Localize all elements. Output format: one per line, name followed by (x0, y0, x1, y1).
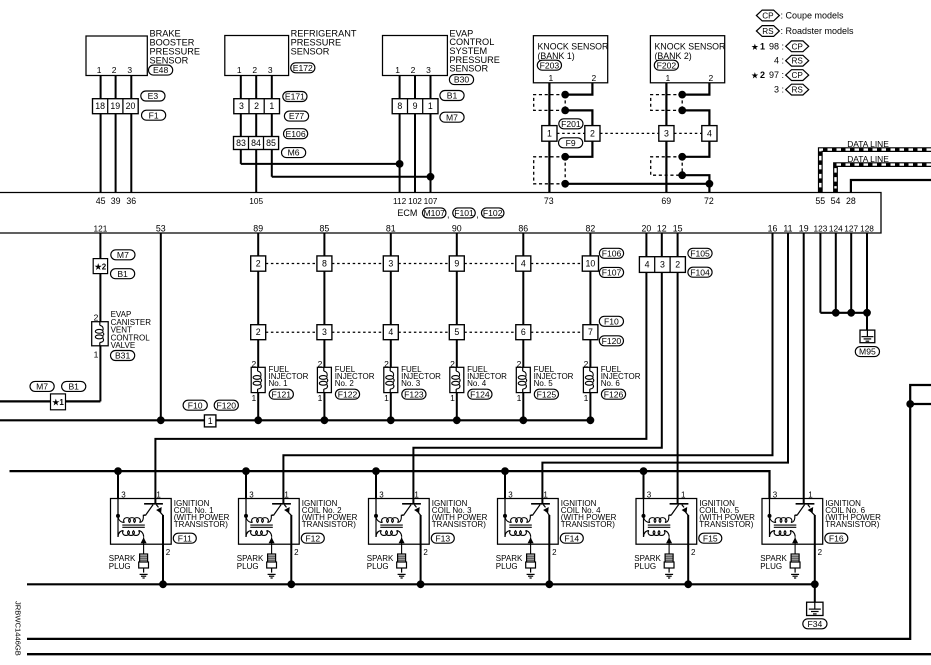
svg-text:10: 10 (586, 259, 596, 269)
svg-text:12: 12 (657, 223, 667, 233)
svg-text:SENSOR: SENSOR (150, 55, 189, 65)
svg-text:2: 2 (590, 128, 595, 138)
svg-text:PLUG: PLUG (367, 562, 389, 571)
svg-text:73: 73 (544, 196, 554, 206)
svg-text:1: 1 (547, 128, 552, 138)
svg-text:1: 1 (156, 490, 161, 499)
svg-text:B1: B1 (447, 91, 458, 101)
svg-text:2: 2 (256, 327, 261, 337)
svg-text:128: 128 (860, 223, 874, 233)
svg-text:84: 84 (251, 138, 261, 148)
svg-text:1: 1 (450, 393, 455, 403)
svg-text:No. 6: No. 6 (601, 379, 621, 388)
svg-text:E48: E48 (153, 65, 169, 75)
svg-text:No. 3: No. 3 (401, 379, 421, 388)
svg-text:2: 2 (818, 548, 823, 557)
svg-text:2: 2 (294, 548, 299, 557)
svg-text:PLUG: PLUG (760, 562, 782, 571)
svg-text:53: 53 (156, 223, 166, 233)
svg-text:2: 2 (252, 65, 257, 75)
svg-text:9: 9 (413, 101, 418, 111)
svg-text:89: 89 (253, 223, 263, 233)
svg-text:2: 2 (450, 359, 455, 369)
svg-text:54: 54 (831, 196, 841, 206)
svg-text:7: 7 (588, 327, 593, 337)
svg-text:1: 1 (584, 393, 589, 403)
svg-text:JRBWC1446GB: JRBWC1446GB (14, 601, 23, 656)
svg-text:ECM: ECM (397, 208, 417, 218)
svg-text:F202: F202 (657, 60, 677, 70)
svg-text:3: 3 (322, 327, 327, 337)
svg-text:3: 3 (388, 259, 393, 269)
svg-text:3 :: 3 : (774, 85, 784, 95)
svg-text:2: 2 (251, 359, 256, 369)
svg-text:1: 1 (237, 65, 242, 75)
svg-text:1: 1 (760, 41, 765, 51)
svg-text:B1: B1 (68, 382, 79, 392)
svg-text:124: 124 (829, 223, 843, 233)
svg-text:TRANSISTOR): TRANSISTOR) (561, 520, 615, 529)
svg-text:39: 39 (111, 196, 121, 206)
svg-text:1: 1 (543, 490, 548, 499)
svg-text:SENSOR: SENSOR (291, 46, 330, 56)
svg-text:8: 8 (322, 259, 327, 269)
svg-text:1: 1 (428, 101, 433, 111)
svg-text:2: 2 (411, 65, 416, 75)
svg-text:F16: F16 (829, 533, 844, 543)
svg-text:RS: RS (792, 57, 804, 66)
svg-text:72: 72 (704, 196, 714, 206)
svg-text:20: 20 (642, 223, 652, 233)
svg-text:F101: F101 (454, 208, 474, 218)
svg-text:8: 8 (397, 101, 402, 111)
svg-text:F13: F13 (435, 533, 450, 543)
svg-text:2: 2 (384, 359, 389, 369)
svg-text:CP: CP (792, 42, 804, 51)
svg-text:4: 4 (388, 327, 393, 337)
svg-text:97 :: 97 : (769, 70, 784, 80)
svg-text:3: 3 (508, 490, 513, 499)
svg-text:M7: M7 (36, 382, 48, 392)
svg-text:F102: F102 (483, 208, 503, 218)
svg-text:F9: F9 (566, 138, 576, 148)
svg-text:F203: F203 (540, 60, 560, 70)
svg-text:86: 86 (518, 223, 528, 233)
svg-text:,: , (476, 210, 479, 220)
svg-text:RS: RS (762, 27, 774, 36)
svg-text:1: 1 (395, 65, 400, 75)
svg-text:19: 19 (799, 223, 809, 233)
svg-text:69: 69 (661, 196, 671, 206)
svg-text:4 :: 4 : (774, 56, 784, 66)
svg-text:2: 2 (760, 70, 765, 80)
svg-text:85: 85 (320, 223, 330, 233)
svg-text:28: 28 (846, 196, 856, 206)
svg-text:2: 2 (709, 73, 714, 83)
svg-text:VALVE: VALVE (111, 341, 136, 350)
svg-text:105: 105 (249, 196, 263, 206)
svg-text:M7: M7 (117, 250, 129, 260)
svg-text:55: 55 (815, 196, 825, 206)
svg-text:SENSOR: SENSOR (449, 64, 488, 74)
svg-text:3: 3 (127, 65, 132, 75)
svg-text:1: 1 (666, 73, 671, 83)
svg-text:TRANSISTOR): TRANSISTOR) (699, 520, 753, 529)
svg-text:15: 15 (673, 223, 683, 233)
svg-text:PLUG: PLUG (496, 562, 518, 571)
svg-text:112: 112 (393, 196, 407, 206)
svg-text:1: 1 (94, 350, 99, 360)
svg-text:: Coupe models: : Coupe models (781, 11, 845, 21)
svg-text:45: 45 (96, 196, 106, 206)
svg-text:F126: F126 (604, 389, 624, 399)
svg-text:3: 3 (647, 490, 652, 499)
svg-text:4: 4 (645, 260, 650, 270)
svg-text:M7: M7 (446, 112, 458, 122)
svg-text:83: 83 (236, 138, 246, 148)
svg-text:B1: B1 (117, 269, 128, 279)
svg-text:1: 1 (517, 393, 522, 403)
svg-text:B31: B31 (115, 351, 131, 361)
svg-text:(BANK 2): (BANK 2) (655, 51, 692, 61)
svg-text:F106: F106 (602, 248, 622, 258)
svg-text:9: 9 (454, 259, 459, 269)
svg-text:RS: RS (792, 86, 804, 95)
svg-text:★2: ★2 (95, 262, 107, 271)
svg-text:No. 2: No. 2 (335, 379, 355, 388)
svg-text:3: 3 (249, 490, 254, 499)
svg-text:PLUG: PLUG (634, 562, 656, 571)
svg-text:16: 16 (768, 223, 778, 233)
svg-text:1: 1 (208, 416, 213, 426)
svg-text:1: 1 (549, 73, 554, 83)
svg-text:M6: M6 (288, 148, 300, 158)
svg-text:2: 2 (675, 260, 680, 270)
svg-text:B30: B30 (454, 75, 470, 85)
svg-text:F1: F1 (149, 110, 159, 120)
svg-text:PLUG: PLUG (109, 562, 131, 571)
svg-text:2: 2 (691, 548, 696, 557)
svg-text:F201: F201 (561, 119, 581, 129)
svg-text:F104: F104 (690, 267, 710, 277)
svg-text:3: 3 (239, 101, 244, 111)
svg-text:1: 1 (269, 101, 274, 111)
svg-text:TRANSISTOR): TRANSISTOR) (432, 520, 486, 529)
svg-text:TRANSISTOR): TRANSISTOR) (825, 520, 879, 529)
svg-text:4: 4 (521, 259, 526, 269)
svg-text:E3: E3 (148, 91, 159, 101)
svg-text:3: 3 (426, 65, 431, 75)
svg-text:3: 3 (660, 260, 665, 270)
svg-text:2: 2 (166, 548, 171, 557)
svg-text:F124: F124 (470, 389, 490, 399)
svg-text:19: 19 (110, 101, 120, 111)
svg-text:TRANSISTOR): TRANSISTOR) (174, 520, 228, 529)
svg-text:2: 2 (94, 312, 99, 322)
svg-text:2: 2 (423, 548, 428, 557)
svg-text:★1: ★1 (52, 398, 64, 407)
svg-text:36: 36 (126, 196, 136, 206)
svg-text:11: 11 (783, 223, 792, 233)
svg-text:F10: F10 (188, 400, 203, 410)
svg-text:: Roadster models: : Roadster models (781, 26, 855, 36)
svg-text:PLUG: PLUG (237, 562, 259, 571)
svg-text:(BANK 1): (BANK 1) (538, 51, 575, 61)
svg-text:F105: F105 (690, 248, 710, 258)
svg-text:TRANSISTOR): TRANSISTOR) (302, 520, 356, 529)
svg-text:2: 2 (318, 359, 323, 369)
svg-text:F11: F11 (178, 533, 192, 543)
svg-text:1: 1 (97, 65, 102, 75)
svg-text:,: , (447, 210, 450, 220)
svg-text:2: 2 (592, 73, 597, 83)
svg-text:90: 90 (452, 223, 462, 233)
svg-text:3: 3 (379, 490, 384, 499)
svg-text:3: 3 (773, 490, 778, 499)
svg-text:F120: F120 (602, 336, 622, 346)
svg-text:1: 1 (251, 393, 256, 403)
svg-text:5: 5 (454, 327, 459, 337)
svg-text:E171: E171 (285, 92, 305, 102)
svg-text:107: 107 (424, 196, 438, 206)
svg-text:4: 4 (707, 128, 712, 138)
svg-text:CP: CP (792, 71, 804, 80)
svg-text:2: 2 (254, 101, 259, 111)
svg-text:F121: F121 (272, 389, 292, 399)
svg-text:F15: F15 (703, 533, 718, 543)
svg-text:F125: F125 (537, 389, 557, 399)
svg-text:2: 2 (517, 359, 522, 369)
svg-text:1: 1 (384, 393, 389, 403)
svg-text:E172: E172 (293, 63, 313, 73)
svg-text:1: 1 (318, 393, 323, 403)
svg-text:E77: E77 (289, 111, 305, 121)
svg-text:81: 81 (386, 223, 396, 233)
svg-text:82: 82 (586, 223, 596, 233)
svg-text:F10: F10 (604, 316, 619, 326)
svg-text:3: 3 (664, 128, 669, 138)
svg-text:F122: F122 (338, 389, 358, 399)
svg-text:2: 2 (584, 359, 589, 369)
svg-text:F34: F34 (807, 619, 822, 629)
svg-text:121: 121 (93, 223, 107, 233)
svg-text:18: 18 (95, 101, 105, 111)
svg-text:2: 2 (112, 65, 117, 75)
svg-text:CP: CP (762, 12, 774, 21)
svg-text:F123: F123 (404, 389, 424, 399)
svg-text:3: 3 (268, 65, 273, 75)
svg-text:E106: E106 (286, 129, 306, 139)
svg-text:1: 1 (808, 490, 813, 499)
svg-text:M95: M95 (859, 347, 876, 357)
svg-text:6: 6 (521, 327, 526, 337)
svg-text:20: 20 (126, 101, 136, 111)
svg-text:F120: F120 (217, 400, 237, 410)
svg-text:98 :: 98 : (769, 41, 784, 51)
svg-text:F107: F107 (602, 268, 622, 278)
svg-text:85: 85 (266, 138, 276, 148)
svg-text:No. 5: No. 5 (534, 379, 554, 388)
svg-text:2: 2 (552, 548, 557, 557)
svg-text:1: 1 (681, 490, 686, 499)
svg-text:127: 127 (844, 223, 858, 233)
svg-text:M107: M107 (423, 208, 445, 218)
svg-text:123: 123 (813, 223, 827, 233)
svg-text:F14: F14 (564, 533, 579, 543)
svg-text:1: 1 (284, 490, 289, 499)
svg-text:No. 1: No. 1 (269, 379, 289, 388)
svg-text:2: 2 (256, 259, 261, 269)
svg-text:3: 3 (121, 490, 126, 499)
svg-text:1: 1 (414, 490, 419, 499)
svg-text:No. 4: No. 4 (467, 379, 487, 388)
svg-text:F12: F12 (305, 533, 320, 543)
svg-text:102: 102 (408, 196, 422, 206)
